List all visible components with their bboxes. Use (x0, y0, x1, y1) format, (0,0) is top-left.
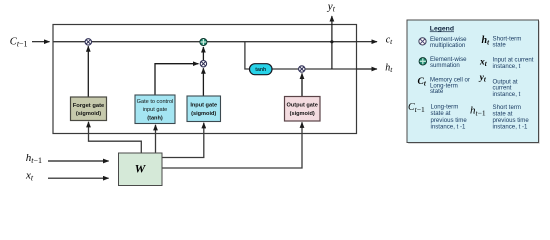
legend icon: adder (419, 58, 426, 65)
svg-text:multiplication: multiplication (430, 42, 465, 49)
wire: h_t output arrow (357, 68, 378, 70)
element-wise multiplier X1 (forget) (85, 39, 91, 45)
LSTM cell outer box (53, 25, 357, 134)
wire: x_t arrow into W (48, 177, 109, 179)
wire: W to tanh-control gate (155, 125, 157, 153)
svg-text:(sigmoid): (sigmoid) (76, 111, 101, 117)
input gate box I (187, 96, 221, 122)
svg-text:summation: summation (430, 62, 460, 69)
svg-text:state: state (493, 42, 507, 49)
svg-text:(sigmoid): (sigmoid) (191, 111, 216, 117)
element-wise multiplier X2 (input) (200, 61, 206, 67)
wire: h_{t-1} arrow into W (48, 160, 109, 162)
legend icon: multiplier (419, 38, 426, 45)
wire: h line from tanh to output (272, 68, 357, 70)
svg-text:(tanh): (tanh) (147, 116, 163, 122)
junction dot at C line crossing (330, 40, 333, 43)
svg-text:(sigmoid): (sigmoid) (290, 111, 315, 117)
wire: C_{t-1} input arrow (32, 41, 50, 43)
output gate box O (285, 97, 321, 122)
wire: y_t branch up from h line (331, 16, 333, 69)
wire: multiplier2 to adder (202, 47, 204, 60)
tanh activation oval (250, 64, 273, 75)
svg-text:Ct: Ct (418, 77, 427, 88)
svg-text:instance, t: instance, t (493, 91, 521, 98)
svg-text:instance, t -1: instance, t -1 (493, 124, 528, 131)
svg-text:instance, t -1: instance, t -1 (431, 124, 466, 131)
wire: output gate up to multiplier3 (301, 73, 303, 96)
wire: C line (long-term state path) (53, 41, 357, 43)
legend panel (407, 20, 540, 144)
gate to control input gate box G (135, 95, 175, 124)
svg-text:state: state (430, 88, 444, 95)
weight matrix box W (119, 153, 163, 186)
wire: c_t output arrow (357, 41, 378, 43)
svg-text:Legend: Legend (430, 25, 454, 32)
svg-text:input gate: input gate (143, 107, 168, 113)
svg-text:xt: xt (479, 57, 488, 68)
element-wise adder (green) (200, 39, 207, 46)
svg-text:Input gate: Input gate (190, 103, 217, 109)
wire: W to input gate elbow (162, 123, 204, 158)
forget gate box F (71, 97, 107, 121)
svg-text:tanh: tanh (255, 67, 266, 73)
element-wise multiplier X3 (output) (299, 66, 305, 72)
wire: W to forget gate elbow (89, 122, 142, 153)
wire: input gate up to multiplier2 (202, 68, 204, 96)
svg-text:yt: yt (479, 73, 487, 84)
svg-text:Gate to control: Gate to control (137, 99, 174, 105)
wire: forget gate to multiplier (87, 46, 89, 97)
svg-text:W: W (135, 162, 147, 176)
wire: tanh-control gate elbow to multiplier2 (155, 64, 198, 95)
wire: W to output gate elbow (162, 122, 302, 168)
svg-text:instance, t: instance, t (493, 63, 521, 70)
svg-text:Output gate: Output gate (287, 103, 318, 109)
wire: branch from C line down to tanh (245, 42, 250, 69)
svg-text:Forget gate: Forget gate (73, 103, 105, 109)
